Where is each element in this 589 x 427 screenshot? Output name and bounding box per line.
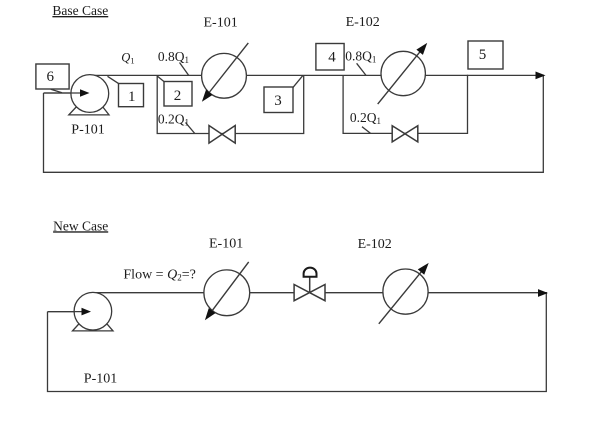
svg-text:0.8Q1: 0.8Q1 [345,49,376,65]
svg-text:E-102: E-102 [358,237,392,252]
svg-text:E-101: E-101 [204,15,238,30]
svg-text:0.8Q1: 0.8Q1 [158,49,189,65]
svg-text:E-102: E-102 [346,15,380,30]
svg-text:Base Case: Base Case [52,3,108,18]
svg-text:New Case: New Case [53,218,108,233]
svg-text:E-101: E-101 [209,236,243,251]
svg-text:5: 5 [479,47,487,63]
svg-text:4: 4 [328,49,336,65]
svg-text:1: 1 [128,89,136,105]
svg-text:P-101: P-101 [71,123,104,138]
svg-text:Flow = Q2=?: Flow = Q2=? [123,267,195,282]
svg-text:6: 6 [46,69,54,85]
svg-text:3: 3 [274,93,282,109]
svg-text:0.2Q1: 0.2Q1 [350,110,381,126]
svg-text:Q1: Q1 [121,51,134,66]
svg-text:0.2Q1: 0.2Q1 [158,111,189,127]
svg-text:2: 2 [174,88,182,104]
svg-text:P-101: P-101 [84,372,117,387]
